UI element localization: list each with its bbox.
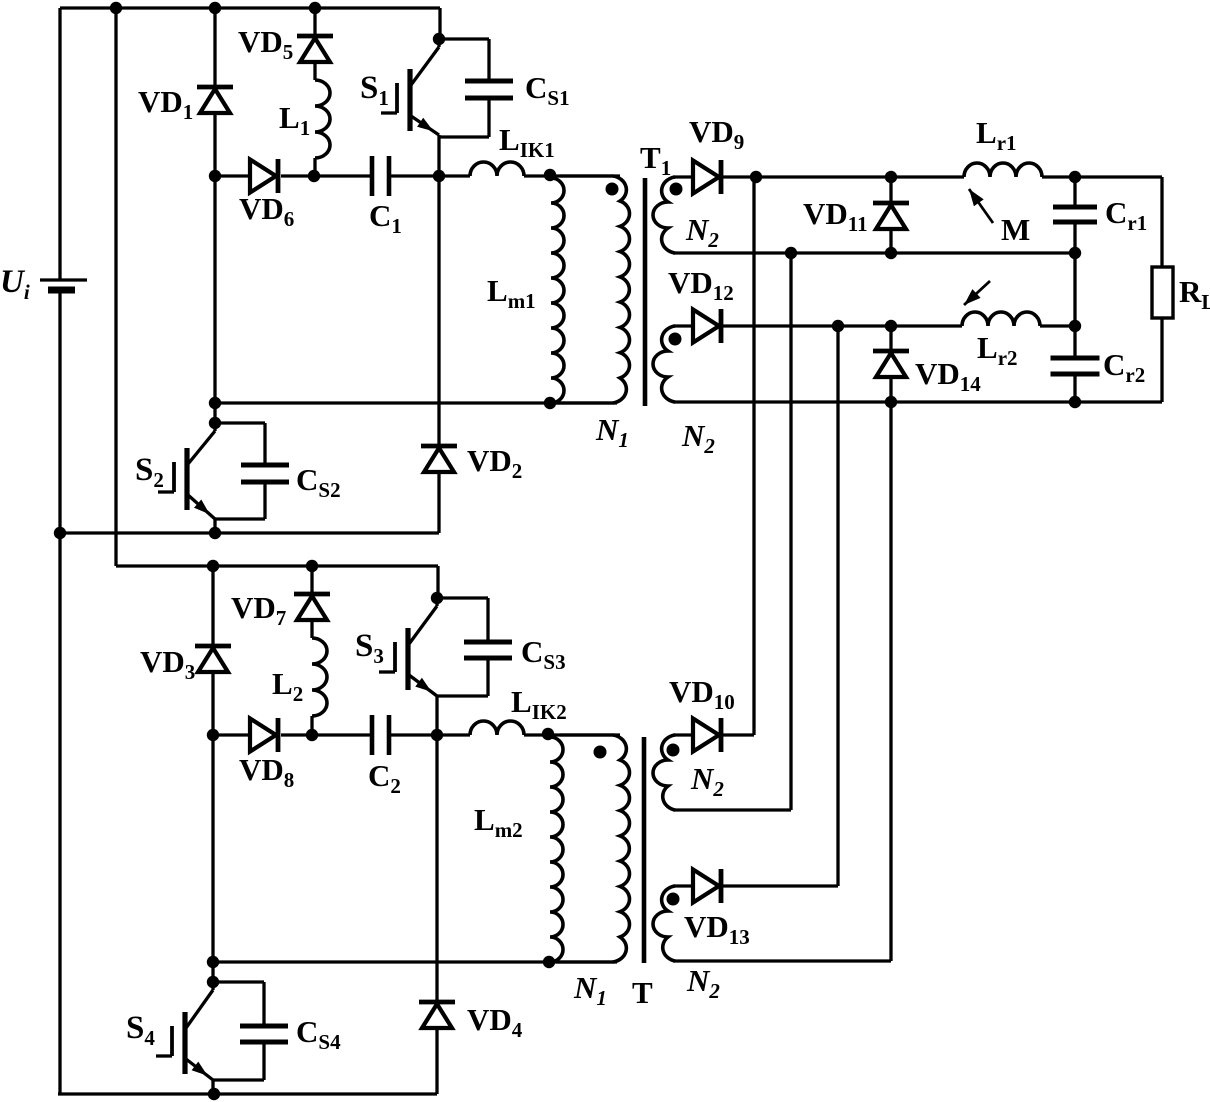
svg-text:VD9: VD9 [689, 114, 744, 154]
svg-text:S1: S1 [360, 70, 389, 110]
svg-text:T: T [632, 975, 653, 1010]
svg-text:VD10: VD10 [669, 674, 735, 714]
svg-text:VD6: VD6 [239, 191, 294, 231]
svg-text:LIK1: LIK1 [499, 122, 555, 162]
svg-text:VD13: VD13 [684, 909, 750, 949]
svg-text:Lr2: Lr2 [977, 330, 1018, 370]
svg-text:VD7: VD7 [231, 590, 286, 630]
svg-text:N2: N2 [685, 212, 719, 252]
svg-text:L2: L2 [272, 666, 303, 706]
svg-text:C2: C2 [368, 758, 401, 798]
svg-text:VD11: VD11 [803, 196, 868, 236]
svg-text:Lm2: Lm2 [474, 802, 523, 842]
svg-text:T1: T1 [640, 140, 671, 180]
svg-text:Lm1: Lm1 [487, 273, 536, 313]
svg-text:CS1: CS1 [525, 70, 570, 110]
svg-text:Ui: Ui [0, 264, 30, 304]
svg-text:LIK2: LIK2 [511, 684, 567, 724]
svg-text:N1: N1 [595, 412, 629, 452]
svg-text:N1: N1 [573, 970, 607, 1010]
svg-text:VD12: VD12 [668, 265, 734, 305]
svg-text:VD4: VD4 [467, 1002, 523, 1042]
svg-text:N2: N2 [686, 963, 720, 1003]
svg-text:N2: N2 [681, 418, 715, 458]
svg-text:VD14: VD14 [915, 356, 981, 396]
svg-text:VD5: VD5 [238, 24, 293, 64]
svg-text:C1: C1 [369, 198, 402, 238]
svg-text:S2: S2 [135, 452, 164, 492]
svg-text:S4: S4 [126, 1010, 155, 1050]
svg-text:N2: N2 [690, 761, 724, 801]
svg-text:S3: S3 [355, 628, 384, 668]
svg-text:VD2: VD2 [467, 443, 522, 483]
svg-text:CS3: CS3 [521, 634, 566, 674]
svg-text:L1: L1 [279, 100, 310, 140]
svg-text:Cr2: Cr2 [1103, 347, 1145, 387]
svg-text:VD1: VD1 [138, 84, 193, 124]
svg-text:VD8: VD8 [239, 752, 294, 792]
svg-text:CS4: CS4 [296, 1014, 341, 1054]
svg-text:Cr1: Cr1 [1105, 195, 1147, 235]
svg-text:CS2: CS2 [296, 462, 341, 502]
svg-text:M: M [1001, 212, 1030, 247]
svg-text:RL: RL [1179, 274, 1210, 314]
svg-text:VD3: VD3 [140, 644, 195, 684]
svg-text:Lr1: Lr1 [976, 115, 1017, 155]
